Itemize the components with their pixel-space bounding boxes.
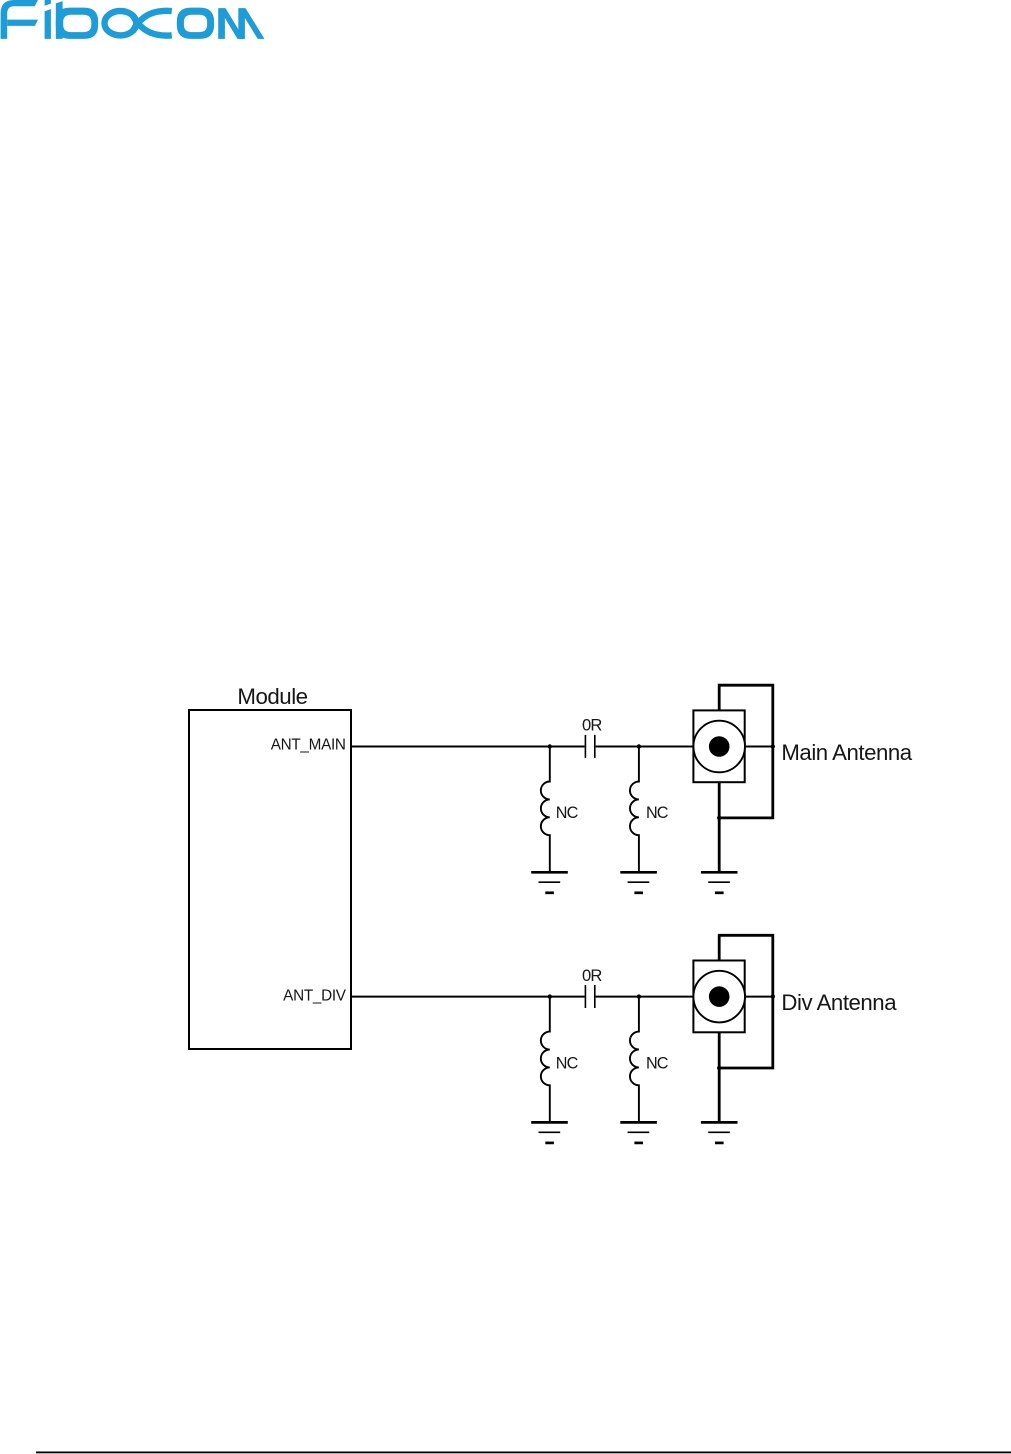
ground GND1 — [531, 872, 568, 893]
junction node C1 shield tie — [771, 744, 775, 748]
resistor 0R series (R1) plates — [585, 735, 594, 758]
svg-text:0R: 0R — [582, 716, 602, 735]
module box U1 — [189, 710, 351, 1049]
junction node C2 shield tie — [771, 994, 775, 998]
Fibocom logo — [1, 0, 265, 39]
svg-text:ANT_DIV: ANT_DIV — [283, 988, 347, 1005]
resistor 0R series (R2) plates — [585, 985, 594, 1008]
connector J1 outer ring — [693, 721, 745, 773]
wire J1 shield to ground — [718, 782, 721, 871]
wire J2 shield to ground — [718, 1032, 721, 1121]
connector J1 center pin — [709, 736, 730, 757]
ground GND5 — [620, 1122, 657, 1143]
junction node D2 shield to ground — [717, 1066, 721, 1070]
antenna connector J1 body — [693, 710, 744, 782]
inductor L3 NC shunt to ground — [541, 997, 550, 1122]
junction node B1 — [637, 744, 641, 748]
wire ANT_DIV from module to R2 — [351, 996, 585, 998]
wire ANT_MAIN from module to R1 — [351, 746, 585, 748]
inductor L1 NC shunt to ground — [541, 747, 550, 872]
wire J1 to node C1 — [745, 746, 773, 748]
wire R1 to connector J1 — [596, 746, 694, 748]
connector J1 shield loop wire — [719, 685, 773, 818]
inductor L2 NC shunt to ground — [630, 747, 639, 872]
svg-text:Div Antenna: Div Antenna — [781, 990, 897, 1015]
wire R2 to connector J2 — [596, 996, 694, 998]
junction node A1 — [548, 744, 552, 748]
ground GND3 — [701, 872, 738, 893]
svg-text:Main Antenna: Main Antenna — [781, 740, 912, 765]
wire J2 to node C2 — [745, 996, 773, 998]
svg-text:ANT_MAIN: ANT_MAIN — [271, 736, 346, 753]
inductor L4 NC shunt to ground — [630, 997, 639, 1122]
antenna connector J2 body — [693, 961, 744, 1033]
connector J2 shield loop wire — [719, 935, 773, 1068]
svg-text:NC: NC — [556, 1054, 579, 1072]
ground GND4 — [531, 1122, 568, 1143]
connector J2 outer ring — [693, 971, 745, 1023]
svg-text:0R: 0R — [582, 966, 602, 985]
footer rule — [36, 1452, 1011, 1454]
ground GND6 — [701, 1122, 738, 1143]
svg-text:NC: NC — [646, 1054, 669, 1072]
junction node B2 — [637, 994, 641, 998]
junction node A2 — [548, 994, 552, 998]
connector J2 center pin — [709, 986, 730, 1007]
svg-text:NC: NC — [556, 804, 579, 822]
junction node D1 shield to ground — [717, 816, 721, 820]
ground GND2 — [620, 872, 657, 893]
svg-text:Module: Module — [237, 684, 307, 709]
svg-text:NC: NC — [646, 804, 669, 822]
